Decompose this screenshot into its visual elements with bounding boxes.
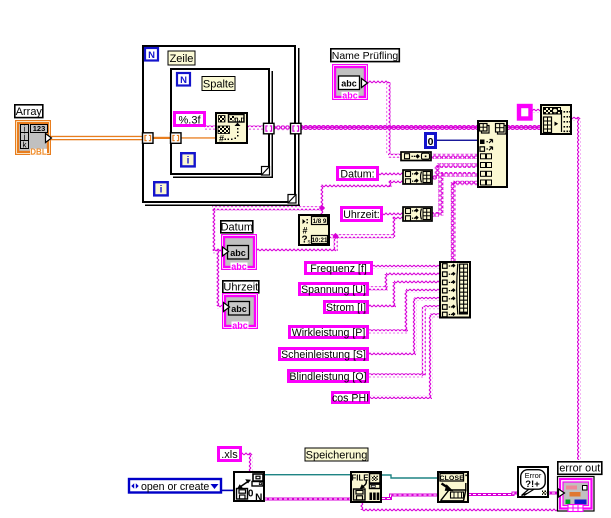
function: Open-Create-Replace File H bbox=[234, 472, 264, 504]
tunnel: outer loop right (auto-index, magenta) bbox=[291, 123, 302, 134]
constant: %.3f format string bbox=[175, 113, 205, 127]
wire: spreadsheet string bottom run to Write File bbox=[360, 501, 558, 512]
svg-text:abc: abc bbox=[231, 304, 247, 314]
svg-text:Strom [I]: Strom [I] bbox=[326, 302, 366, 314]
wire: Strom constant to Build Array G row3 bbox=[368, 280, 440, 308]
tunnel: inner loop right (auto-index, magenta) bbox=[264, 123, 275, 134]
wire: error cluster I to CLOSE J bbox=[382, 495, 437, 499]
indicator: error out (error cluster) bbox=[558, 477, 595, 512]
svg-text:abc: abc bbox=[231, 262, 247, 272]
svg-text:abc: abc bbox=[230, 248, 246, 258]
svg-text:#: # bbox=[219, 134, 224, 144]
wire: Spannung constant to Build Array G row2 bbox=[368, 272, 440, 290]
function: Simple Error Handler K bbox=[518, 467, 548, 497]
wire: format node string output to inner tunnel bbox=[246, 126, 265, 130]
svg-text:N: N bbox=[148, 50, 155, 61]
svg-text:Datum:: Datum: bbox=[340, 169, 374, 181]
wire: empty string constant to node F bbox=[531, 109, 541, 113]
wire: time string from Get Date-Time D to Build Array C and Uhrzeit indicator bbox=[216, 217, 403, 309]
constant: empty format string bbox=[519, 106, 531, 119]
svg-text:%.3f: %.3f bbox=[178, 115, 201, 127]
junction: time string net bbox=[332, 233, 338, 239]
wire: Datum: constant to Build Array B bbox=[378, 172, 403, 176]
wire: 2D string array from Build Array E to Array-To-Spreadsheet-String F bbox=[506, 125, 541, 130]
svg-text:Datum: Datum bbox=[221, 222, 253, 234]
constant: cos PHI bbox=[332, 392, 369, 404]
svg-text:abc: abc bbox=[232, 321, 248, 331]
svg-text:?!+: ?!+ bbox=[525, 479, 540, 490]
i terminal (outer loop) bbox=[154, 182, 168, 195]
function: Build Array E (table assembly) bbox=[478, 121, 507, 187]
function: Build Array C (Uhrzeit row) bbox=[403, 207, 432, 221]
svg-text:1/8 9: 1/8 9 bbox=[313, 218, 327, 225]
svg-text:Name Prüfling: Name Prüfling bbox=[332, 50, 399, 62]
wire: Name Pruefling string to Build Array A bbox=[367, 81, 401, 158]
svg-text:Frequenz [f]: Frequenz [f] bbox=[310, 263, 367, 275]
svg-text:123: 123 bbox=[33, 124, 46, 133]
wire: scalar orange wire inner tunnel to format node bbox=[180, 137, 216, 138]
svg-text:N: N bbox=[255, 493, 262, 504]
label: Uhrzeit (indicator) bbox=[223, 281, 259, 294]
svg-text:10:21: 10:21 bbox=[312, 237, 328, 244]
svg-text:Uhrzeit: Uhrzeit bbox=[223, 282, 258, 294]
constant: Blindleistung [Q] bbox=[289, 371, 368, 383]
wire: error cluster H to I bbox=[264, 498, 351, 501]
svg-text:Spannung [U]: Spannung [U] bbox=[301, 284, 366, 296]
svg-text:CLOSE: CLOSE bbox=[440, 475, 465, 482]
indicator: Uhrzeit (string) bbox=[223, 294, 258, 331]
function: Build Array A (Name row) bbox=[401, 152, 431, 161]
wire: error cluster CLOSE J to error handler K bbox=[468, 493, 517, 495]
wire: Build Array C output to Build Array E bbox=[432, 172, 478, 217]
label: Name Pruefling bbox=[331, 49, 400, 62]
svg-text:0: 0 bbox=[428, 136, 434, 148]
wire: Scheinleistung constant to Build Array G row5 bbox=[368, 297, 441, 355]
wire: open-or-create enum to node H bbox=[221, 490, 233, 492]
svg-text:cos PHI: cos PHI bbox=[332, 392, 369, 404]
constant: Scheinleistung [S] bbox=[280, 349, 368, 361]
wire: Build Array A 1D output to Build Array E bbox=[431, 154, 478, 159]
svg-text:Speicherung: Speicherung bbox=[306, 450, 368, 462]
svg-text:DBL: DBL bbox=[30, 148, 47, 157]
function: Close File J bbox=[438, 472, 468, 502]
wire: blue 0 constant to Build Array E bbox=[436, 140, 478, 141]
label: error out bbox=[558, 462, 602, 475]
svg-text:abc: abc bbox=[341, 79, 357, 89]
wire: Blindleistung constant to Build Array G row6 bbox=[368, 305, 441, 377]
label: Spalte bbox=[202, 77, 235, 91]
svg-text:abc: abc bbox=[342, 91, 358, 101]
wire: date string from Get Date-Time D to Build Array B and Datum indicator bbox=[212, 179, 403, 253]
for-loop Zeile (outer) border bbox=[142, 45, 300, 206]
wire: 1D orange wire between loop tunnels bbox=[152, 137, 172, 139]
tunnel: inner loop left (auto-index, orange) bbox=[171, 133, 182, 144]
N terminal (outer loop Zeile) bbox=[145, 48, 158, 61]
svg-text:0: 0 bbox=[248, 489, 254, 500]
wire: .xls string to Open-Create-Replace H bbox=[241, 452, 253, 472]
svg-text:Scheinleistung [S]: Scheinleistung [S] bbox=[281, 349, 366, 361]
for-loop Spalte (inner) border bbox=[170, 68, 273, 178]
svg-text:open or create: open or create bbox=[141, 481, 209, 493]
svg-text:Wirkleistung [P]: Wirkleistung [P] bbox=[292, 327, 366, 339]
svg-text:s: s bbox=[308, 240, 311, 246]
wire: Array control 2D orange wire to outer loop tunnel bbox=[50, 136, 144, 141]
wire: Build Array G output to Build Array E bbox=[451, 181, 478, 262]
constant: Spannung [U] bbox=[300, 284, 368, 296]
wire: error cluster K to error out indicator bbox=[547, 492, 558, 495]
function: Get Date-Time String D bbox=[299, 215, 329, 246]
svg-text:i: i bbox=[160, 185, 163, 196]
function: Array To Spreadsheet String F bbox=[541, 105, 571, 134]
wire: Frequenz constant to Build Array G row1 bbox=[372, 265, 440, 269]
svg-text:Array: Array bbox=[16, 106, 43, 118]
constant: Wirkleistung [P] bbox=[290, 327, 368, 339]
wire: Uhrzeit: constant to Build Array C bbox=[382, 212, 403, 216]
constant: Datum: bbox=[338, 168, 378, 181]
wire: 2D string array from outer tunnel to Build Array E bbox=[299, 125, 478, 130]
svg-text:Uhrzeit:: Uhrzeit: bbox=[343, 209, 380, 221]
wire: 1D string array between inner and outer tunnels bbox=[272, 125, 292, 130]
constant: Uhrzeit: bbox=[342, 208, 382, 222]
wire: %.3f format string into format node bbox=[204, 126, 216, 130]
wire: Build Array B output to Build Array E bbox=[432, 163, 478, 179]
svg-text:Zeile: Zeile bbox=[170, 53, 194, 65]
constant: .xls bbox=[219, 448, 241, 462]
svg-text:Spalte: Spalte bbox=[203, 79, 234, 91]
svg-text:n.n: n.n bbox=[234, 117, 245, 124]
svg-text:N: N bbox=[180, 75, 187, 86]
wire: file refnum teal H to I bbox=[264, 474, 351, 475]
function: Build Array B (Datum row) bbox=[403, 170, 432, 184]
label: Speicherung bbox=[305, 448, 368, 462]
function: Build Array G (7 header rows) bbox=[440, 262, 470, 318]
constant: Frequenz [f] bbox=[306, 263, 372, 275]
N terminal (inner loop Spalte) bbox=[177, 73, 190, 86]
svg-text:i: i bbox=[187, 156, 190, 167]
svg-text:error out: error out bbox=[559, 463, 600, 475]
label: Datum (indicator) bbox=[221, 221, 253, 234]
control: Name Pruefling (string control) bbox=[333, 65, 368, 101]
wire: spreadsheet string from F down right side bbox=[570, 117, 581, 460]
wire: cos PHI constant to Build Array G row7 bbox=[369, 313, 441, 399]
svg-text:.xls: .xls bbox=[221, 449, 238, 461]
i terminal (inner loop) bbox=[181, 153, 195, 166]
junction: date string net bbox=[319, 205, 325, 211]
tunnel: outer loop left (auto-index, orange) bbox=[143, 133, 154, 144]
svg-text:Blindleistung [Q]: Blindleistung [Q] bbox=[289, 371, 366, 383]
function: Number To Fractional String bbox=[216, 113, 247, 144]
indicator: Datum (string) bbox=[222, 235, 257, 272]
control: Array (2D DBL array terminal) bbox=[16, 121, 52, 157]
function: Write File I bbox=[351, 472, 381, 502]
wire: Wirkleistung constant to Build Array G row4 bbox=[368, 289, 440, 334]
constant: 0 (blue numeric) bbox=[426, 134, 436, 149]
label: Zeile bbox=[168, 51, 195, 65]
constant: open or create (enum ring) bbox=[129, 479, 221, 493]
wire: file refnum teal I to CLOSE J bbox=[382, 475, 437, 478]
constant: Strom [I] bbox=[325, 302, 368, 314]
label: Array bbox=[15, 105, 43, 118]
